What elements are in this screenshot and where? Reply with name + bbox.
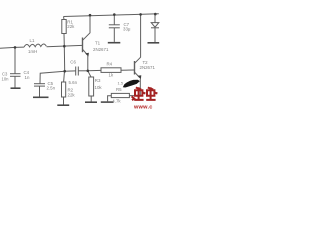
wire base column down <box>63 46 65 71</box>
node input-C4 <box>14 46 17 49</box>
ground D1 <box>148 42 160 44</box>
svg-text:22k: 22k <box>68 93 76 98</box>
svg-text:www.c: www.c <box>133 105 153 110</box>
wire mid left <box>40 71 65 83</box>
svg-text:R5: R5 <box>116 87 122 92</box>
wire top rail <box>64 14 159 17</box>
svg-text:10n: 10n <box>2 77 10 82</box>
svg-text:22k: 22k <box>67 24 75 29</box>
resistor R2 <box>62 82 66 97</box>
svg-text:5.6n: 5.6n <box>69 80 78 85</box>
svg-text:1mH: 1mH <box>28 49 37 54</box>
svg-text:2.5n: 2.5n <box>47 86 56 91</box>
wire L1 to base <box>47 45 83 46</box>
node emitter T1 <box>87 70 90 73</box>
svg-text:T1: T1 <box>95 40 101 45</box>
svg-text:2N2671: 2N2671 <box>93 47 109 52</box>
svg-text:1.5: 1.5 <box>118 81 124 86</box>
capacitor C6 <box>65 70 76 72</box>
node base R1 <box>63 45 66 48</box>
capacitor C5 <box>34 83 45 85</box>
svg-text:4.7k: 4.7k <box>112 98 121 103</box>
svg-text:10k: 10k <box>95 85 103 90</box>
resistor R4 <box>88 69 101 71</box>
svg-text:1k: 1k <box>109 73 114 78</box>
node rail T1 <box>89 14 92 17</box>
node rail D1 <box>154 13 157 16</box>
node rail T2 <box>139 13 142 16</box>
ground C7 <box>108 42 121 44</box>
diode D1 <box>154 14 156 23</box>
resistor R1 <box>63 17 66 20</box>
svg-text:C6: C6 <box>70 60 76 65</box>
ground C4 <box>11 87 21 89</box>
ground R2 <box>57 104 69 106</box>
logo watermark <box>123 80 158 111</box>
svg-text:R3: R3 <box>95 78 101 83</box>
node mid R2 <box>63 70 66 73</box>
ground R5 <box>101 101 114 103</box>
svg-text:L1: L1 <box>30 38 35 43</box>
resistor R5 <box>111 93 129 97</box>
transistor T2 <box>134 61 136 75</box>
transistor T1 <box>82 38 84 53</box>
resistor R3 <box>88 71 91 77</box>
inductor L1 <box>24 44 46 47</box>
ground R3 <box>85 101 97 103</box>
node rail C7 <box>113 13 116 16</box>
svg-text:1n: 1n <box>25 75 30 80</box>
capacitor C7 <box>113 15 115 25</box>
arrow emitter T2 <box>138 75 142 79</box>
svg-text:33μ: 33μ <box>123 27 131 32</box>
svg-text:R4: R4 <box>107 62 113 67</box>
svg-text:2N2671: 2N2671 <box>140 65 156 70</box>
arrow emitter T1 <box>85 53 89 57</box>
wire input <box>0 47 24 48</box>
capacitor C4 <box>14 47 16 73</box>
ground C5 <box>33 96 49 98</box>
